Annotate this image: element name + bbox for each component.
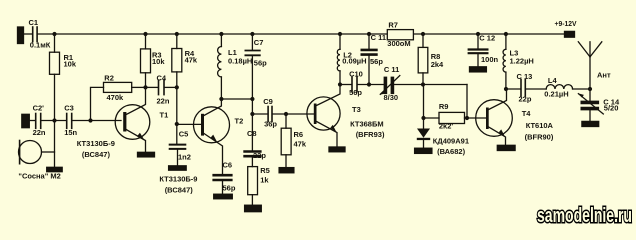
svg-text:R6: R6 <box>294 130 304 139</box>
svg-text:5/20: 5/20 <box>604 103 619 112</box>
svg-text:10k: 10k <box>64 60 77 69</box>
svg-text:C 13: C 13 <box>517 72 533 81</box>
svg-text:1.22µН: 1.22µН <box>510 57 534 66</box>
svg-text:КТ610А: КТ610А <box>526 121 554 130</box>
svg-text:C5: C5 <box>179 129 189 138</box>
svg-text:+9-12V: +9-12V <box>555 19 577 28</box>
svg-text:10k: 10k <box>152 57 165 66</box>
svg-text:T3: T3 <box>352 105 361 114</box>
svg-text:47k: 47k <box>294 140 307 149</box>
svg-text:C10: C10 <box>349 69 363 78</box>
svg-text:C3: C3 <box>64 104 74 113</box>
svg-text:22n: 22n <box>157 96 170 105</box>
svg-text:(ВА682): (ВА682) <box>437 147 465 156</box>
svg-text:36p: 36p <box>264 120 277 129</box>
svg-text:56p: 56p <box>254 59 267 68</box>
svg-text:(BFR93): (BFR93) <box>356 130 385 139</box>
svg-text:15n: 15n <box>64 128 77 137</box>
svg-text:C 11: C 11 <box>371 33 386 42</box>
svg-text:C9: C9 <box>263 97 273 106</box>
svg-text:0.1мК: 0.1мК <box>30 41 51 50</box>
svg-text:22p: 22p <box>519 95 532 104</box>
svg-text:C 12: C 12 <box>479 33 495 42</box>
svg-text:C7: C7 <box>254 38 264 47</box>
svg-text:samodelnie.ru: samodelnie.ru <box>537 205 632 227</box>
svg-text:R7: R7 <box>388 20 398 29</box>
svg-text:1n2: 1n2 <box>178 153 191 162</box>
svg-text:L4: L4 <box>548 76 558 85</box>
svg-text:8/30: 8/30 <box>384 93 399 102</box>
svg-text:C2': C2' <box>33 104 45 113</box>
svg-text:C4: C4 <box>157 74 167 83</box>
svg-text:(BFR90): (BFR90) <box>525 132 554 141</box>
svg-text:100n: 100n <box>481 55 499 64</box>
svg-text:T1: T1 <box>160 111 169 120</box>
svg-text:T2: T2 <box>235 117 244 126</box>
svg-text:КТ3130Б-9: КТ3130Б-9 <box>159 174 197 183</box>
svg-text:56p: 56p <box>370 57 383 66</box>
svg-text:47k: 47k <box>185 56 198 65</box>
svg-text:22n: 22n <box>33 128 46 137</box>
svg-text:(ВС847): (ВС847) <box>82 150 111 159</box>
svg-text:R2: R2 <box>104 74 114 83</box>
svg-text:0.18µН: 0.18µН <box>228 57 252 66</box>
svg-text:C1: C1 <box>29 18 39 27</box>
svg-text:300оМ: 300оМ <box>387 39 410 48</box>
svg-text:0.21µН: 0.21µН <box>544 89 568 98</box>
svg-text:КТ3130Б-9: КТ3130Б-9 <box>77 139 115 148</box>
svg-text:22p: 22p <box>253 151 266 160</box>
svg-text:L1: L1 <box>228 48 237 57</box>
svg-text:2k4: 2k4 <box>431 60 444 69</box>
svg-text:(ВС847): (ВС847) <box>165 186 194 195</box>
svg-text:Ант: Ант <box>597 71 611 80</box>
svg-text:КТ368БМ: КТ368БМ <box>350 120 384 129</box>
svg-text:470k: 470k <box>107 93 125 102</box>
svg-text:R9: R9 <box>439 102 449 111</box>
svg-text:C 11: C 11 <box>384 65 399 74</box>
svg-text:2k2': 2k2' <box>439 122 454 131</box>
svg-text:1k: 1k <box>260 176 269 185</box>
svg-text:R5: R5 <box>260 166 270 175</box>
svg-text:56p: 56p <box>223 184 236 193</box>
svg-text:56p: 56p <box>349 88 362 97</box>
svg-text:C6: C6 <box>223 161 233 170</box>
svg-text:КД409А91: КД409А91 <box>433 137 469 146</box>
svg-text:T4: T4 <box>522 109 532 118</box>
svg-text:0.09µН: 0.09µН <box>342 57 366 66</box>
svg-text:"Сосна" М2: "Сосна" М2 <box>18 172 60 181</box>
svg-text:C8: C8 <box>247 129 257 138</box>
